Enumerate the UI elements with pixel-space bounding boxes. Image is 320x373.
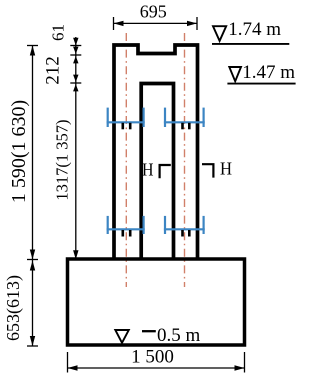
svg-text:653(613): 653(613) [3,275,24,341]
dimension line inner left: 61 + 212 + 1317(1357) [70,37,81,260]
svg-text:H: H [142,160,154,180]
svg-text:61: 61 [49,24,68,41]
dimension 695 top [114,17,198,30]
clamp upper left [107,108,145,127]
svg-text:H: H [220,159,232,179]
water level 1.74 m [212,26,289,44]
svg-text:1 500: 1 500 [131,347,174,368]
svg-text:212: 212 [42,56,63,85]
svg-text:1.47 m: 1.47 m [242,62,295,83]
clamp upper right [164,108,205,127]
foundation block [68,259,245,345]
clamp lower left [107,216,145,234]
dimension line outer left: 1590(1630) + 653(613) [27,46,38,347]
clamp lower right [164,216,205,234]
svg-text:1 590(1 630): 1 590(1 630) [8,100,30,203]
dimension 1500 bottom [68,352,245,373]
centerline left column [125,33,127,287]
section marker H right [202,164,213,177]
pier outline (cap with notch and two columns) [114,45,198,259]
rebar dashes upper left [123,123,130,130]
svg-text:1.74 m: 1.74 m [228,19,281,40]
pier inner opening [141,84,173,260]
rebar dashes lower right [183,230,190,237]
water level -0.5 m in foundation [115,330,156,343]
centerline right column [184,33,186,287]
svg-text:695: 695 [140,2,167,22]
svg-text:1317(1 357): 1317(1 357) [52,119,71,200]
svg-text:0.5 m: 0.5 m [157,325,201,346]
water level 1.47 m [227,67,295,84]
rebar dashes upper right [183,123,190,130]
rebar dashes lower left [123,230,130,237]
